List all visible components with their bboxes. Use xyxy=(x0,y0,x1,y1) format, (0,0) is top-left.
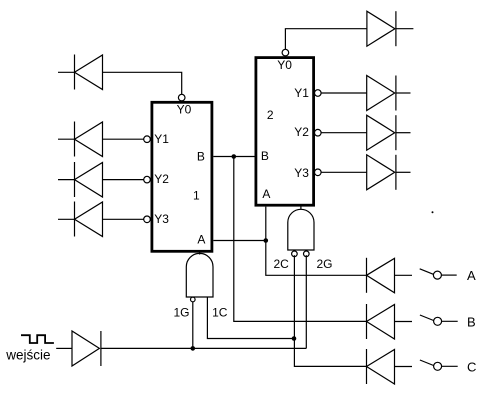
svg-text:Y3: Y3 xyxy=(294,166,309,180)
wire D8 cathode stub xyxy=(396,171,411,173)
diode D9 (row A) xyxy=(367,258,395,293)
switch SW-A xyxy=(420,269,457,279)
svg-text:B: B xyxy=(197,149,205,163)
svg-text:C: C xyxy=(467,360,476,375)
G1 input 1G bubble xyxy=(191,297,196,302)
wire D1 cathode stub xyxy=(58,71,75,73)
node B junction xyxy=(232,154,237,159)
wire net 2G xyxy=(305,255,307,348)
and-gate G1 body xyxy=(186,253,213,297)
svg-text:2: 2 xyxy=(267,108,274,122)
diode D6 (U2 Y1 LED) xyxy=(367,76,396,111)
wire D9 to switch A xyxy=(395,274,413,276)
svg-text:wejście: wejście xyxy=(5,348,50,363)
diode D3 (U1 Y2 LED) xyxy=(75,162,103,197)
svg-text:1: 1 xyxy=(193,189,200,203)
U2 pin Y1 bubble xyxy=(315,90,322,97)
wire net B vertical drop xyxy=(234,157,367,322)
svg-text:Y0: Y0 xyxy=(177,103,192,117)
G2 input 2C bubble xyxy=(292,251,298,257)
wire net 2C to row C xyxy=(294,255,366,366)
wire D11 to switch C xyxy=(395,366,413,368)
U1 pin Y1 bubble xyxy=(144,136,151,143)
U1 pin Y3 bubble xyxy=(144,216,151,223)
switch SW-C xyxy=(420,360,458,370)
node wejscie/1G junction xyxy=(191,346,196,351)
diode D10 (row B) xyxy=(367,304,395,339)
diode D2 (U1 Y1 LED) xyxy=(75,122,103,157)
wire D7 cathode stub xyxy=(396,132,411,134)
decoder U2 body xyxy=(256,58,314,206)
wire U2 Y1 to D6 xyxy=(321,92,367,94)
svg-text:A: A xyxy=(467,268,476,283)
diode D1 (U1 Y0 LED) xyxy=(75,55,103,90)
svg-text:2C: 2C xyxy=(274,257,290,271)
wire D4 to U1 Y3 xyxy=(103,218,144,220)
wire net 1G xyxy=(192,302,194,349)
G2 output stub xyxy=(300,206,302,210)
svg-text:1G: 1G xyxy=(174,306,190,320)
G2 input 2G bubble xyxy=(304,251,310,257)
wire net A: U1.A to junction xyxy=(213,240,265,242)
wire net A: U2.A drop to row A xyxy=(266,207,367,276)
svg-text:1C: 1C xyxy=(212,306,228,320)
U2 pin Y2 bubble xyxy=(315,129,322,136)
wire D6 cathode stub xyxy=(396,92,411,94)
switch SW-B xyxy=(420,315,458,325)
wire D2 cathode stub xyxy=(58,138,75,140)
G1 output stub xyxy=(199,252,201,255)
U1 pin Y2 bubble xyxy=(144,176,151,183)
svg-text:Y1: Y1 xyxy=(154,132,169,146)
wire U2 Y3 to D8 xyxy=(321,171,367,173)
wire D5 cathode stub xyxy=(396,28,414,30)
wire wejscie to D12 xyxy=(56,347,72,349)
wire D3 to U1 Y2 xyxy=(103,179,144,181)
diode D8 (U2 Y3 LED) xyxy=(367,155,396,190)
svg-text:2G: 2G xyxy=(317,257,333,271)
diode D7 (U2 Y2 LED) xyxy=(367,115,396,150)
node A junction xyxy=(264,238,269,243)
U2 pin Y3 bubble xyxy=(315,169,322,176)
svg-text:B: B xyxy=(467,315,476,330)
stray dot xyxy=(432,211,434,213)
wire D10 to switch B xyxy=(395,321,413,323)
U2 pin Y0 bubble xyxy=(282,49,289,56)
svg-text:B: B xyxy=(261,149,269,163)
diode D11 (row C) xyxy=(367,349,395,384)
diode D5 (U2 Y0 LED) xyxy=(367,11,396,46)
svg-text:Y2: Y2 xyxy=(294,125,309,139)
diode D4 (U1 Y3 LED) xyxy=(75,202,103,237)
node 1C/2C junction xyxy=(292,336,297,341)
wire D2 to U1 Y1 xyxy=(103,138,144,140)
svg-text:A: A xyxy=(197,233,205,247)
wire net wejscie bus xyxy=(101,347,306,349)
svg-text:Y0: Y0 xyxy=(277,58,292,72)
input waveform glyph xyxy=(21,335,54,343)
wire D1 to U1 Y0 xyxy=(103,72,182,94)
wire net 1C xyxy=(207,297,294,338)
U1 pin Y0 bubble xyxy=(178,94,185,101)
diode D12 (input) xyxy=(72,331,101,366)
svg-text:Y2: Y2 xyxy=(154,172,169,186)
wire U2 Y2 to D7 xyxy=(321,132,367,134)
svg-text:Y3: Y3 xyxy=(154,212,169,226)
and-gate G2 body xyxy=(288,209,314,250)
svg-text:Y1: Y1 xyxy=(294,86,309,100)
wire net B: U1.B to U2.B xyxy=(213,156,256,158)
decoder U1 body xyxy=(152,102,212,251)
wire U2 Y0 to D5 xyxy=(285,29,367,50)
svg-text:A: A xyxy=(262,187,270,201)
wire D3 cathode stub xyxy=(58,179,75,181)
wire D4 cathode stub xyxy=(58,218,75,220)
